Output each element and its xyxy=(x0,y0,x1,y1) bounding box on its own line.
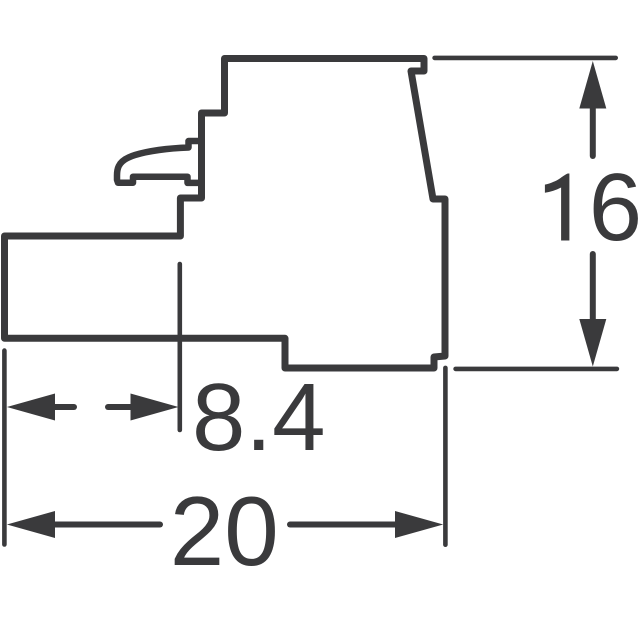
dim 16 lower tail xyxy=(590,254,596,321)
dimension label 20 xyxy=(170,482,279,580)
dimension label 16: digit 6 (digit 1 is drawn as SVG path) xyxy=(589,160,640,256)
extension line right for 20 (x=445.4) xyxy=(443,368,448,545)
arrowhead 20 left xyxy=(7,511,55,538)
dim 16 upper tail xyxy=(590,106,596,156)
dim 20 right tail xyxy=(290,522,397,528)
extension line for 8.4 (x=179.8) xyxy=(178,264,183,430)
arrowhead 8.4 right xyxy=(131,394,179,421)
dim 8.4 right tail xyxy=(108,404,132,410)
extension line left (x=4.4) xyxy=(2,351,7,545)
arrowhead 16 up xyxy=(579,61,606,109)
arrowhead 16 down xyxy=(579,319,606,367)
dim 20 left tail xyxy=(53,522,160,528)
connector housing profile outline xyxy=(5,59,446,369)
arrowhead 20 right xyxy=(395,511,443,538)
arrowhead 8.4 left xyxy=(7,394,55,421)
dimension label 8.4 xyxy=(192,370,325,466)
dim 8.4 left tail xyxy=(53,404,74,410)
extension line top for 16 (y=57.9) xyxy=(435,56,616,61)
extension line bottom for 16 (y=368.9) xyxy=(456,367,617,372)
latch lever arm xyxy=(117,141,202,183)
digit 1 of label 16 (helvetica-style, no foot) xyxy=(545,174,570,241)
